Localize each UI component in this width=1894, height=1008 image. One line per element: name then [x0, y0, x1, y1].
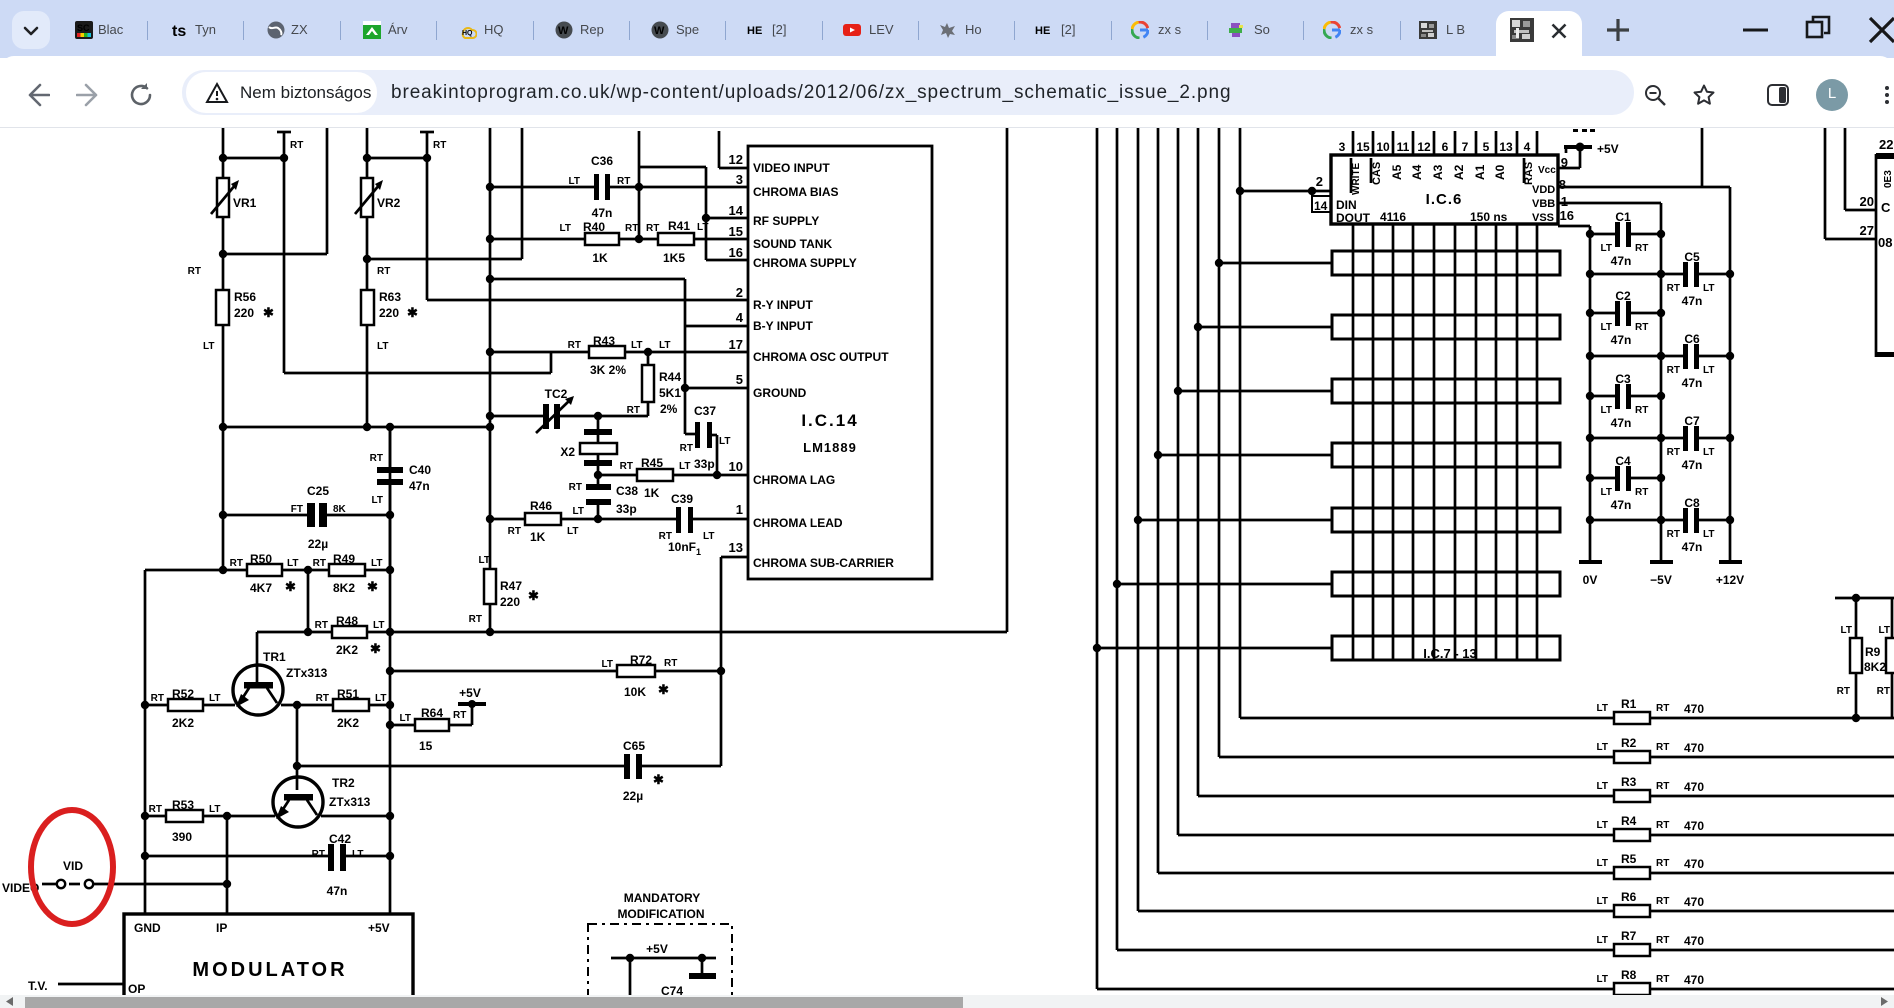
svg-text:RF SUPPLY: RF SUPPLY [753, 214, 819, 228]
wire: C36/R40 junction [638, 187, 641, 239]
svg-text:R5: R5 [1621, 852, 1637, 866]
svg-text:8: 8 [1559, 177, 1566, 192]
tab 5 favicon HQ [459, 21, 477, 39]
svg-text:LT: LT [1879, 625, 1890, 636]
svg-text:RT: RT [508, 526, 521, 537]
wire: modulator GND riser [141, 570, 149, 914]
svg-text:RT: RT [1656, 781, 1669, 792]
resistor R4 [1597, 814, 1894, 841]
tab 3 favicon globe [267, 21, 285, 39]
wire: row 7 tap [1093, 644, 1332, 652]
svg-text:LT: LT [209, 804, 220, 815]
svg-text:R47: R47 [500, 579, 522, 593]
svg-text:470: 470 [1684, 895, 1704, 909]
wire: +12V rail [1716, 187, 1744, 587]
power +5V terminal (IC6 pin 9) [1558, 129, 1619, 170]
wire: TR2 collector to +5V [321, 815, 390, 818]
wire: R49 base link [304, 570, 312, 636]
star icon [1692, 83, 1716, 107]
wire: data bus line 5 (to R5) [1158, 128, 1614, 873]
svg-text:1K: 1K [530, 530, 546, 544]
svg-text:C2: C2 [1615, 289, 1631, 303]
resistor R3 [1597, 775, 1894, 802]
content top hairline [0, 127, 1894, 128]
wire: video out riser [1006, 128, 1009, 632]
svg-text:C42: C42 [329, 832, 351, 846]
3-dot menu [1875, 83, 1894, 107]
svg-text:C36: C36 [591, 154, 613, 168]
resistor R7 [1597, 929, 1894, 956]
wire: VR2 branch vertical [366, 128, 369, 427]
svg-text:RT: RT [1837, 686, 1850, 697]
wire: data bus line 4 (to R4) [1178, 128, 1614, 835]
svg-text:LT: LT [1597, 820, 1608, 831]
svg-text:10: 10 [1376, 140, 1390, 154]
svg-text:R41: R41 [668, 219, 690, 233]
svg-text:14: 14 [1314, 199, 1328, 213]
svg-text:5: 5 [736, 372, 743, 387]
svg-text:RT: RT [568, 340, 581, 351]
svg-text:13: 13 [1499, 140, 1513, 154]
svg-text:47n: 47n [1682, 376, 1703, 390]
svg-text:R3: R3 [1621, 775, 1637, 789]
transistor TR2 [273, 776, 371, 827]
svg-text:✱: ✱ [658, 682, 669, 697]
svg-text:A1: A1 [1473, 164, 1487, 180]
window minimize [1742, 16, 1770, 44]
wire: ground (pin 5) [681, 384, 748, 392]
svg-text:C40: C40 [409, 463, 431, 477]
capacitor C39 [659, 492, 748, 557]
svg-text:RT: RT [453, 710, 466, 721]
capacitor C25 [219, 484, 394, 551]
wire: row 2 tap [1194, 323, 1332, 331]
wire: VR1 wiper [219, 128, 327, 258]
wire: VR1 branch vertical [222, 128, 225, 570]
svg-text:22: 22 [1879, 137, 1893, 152]
svg-text:33p: 33p [694, 457, 715, 471]
IC row I.C.9 [1332, 379, 1560, 403]
svg-text:LT: LT [1601, 243, 1612, 254]
svg-text:1: 1 [1561, 194, 1568, 209]
svg-text:LT: LT [1597, 935, 1608, 946]
svg-text:C38: C38 [616, 484, 638, 498]
svg-text:RT: RT [1635, 487, 1648, 498]
svg-text:+12V: +12V [1716, 573, 1744, 587]
capacitor C2 [1590, 289, 1661, 347]
svg-text:LT: LT [287, 558, 298, 569]
op-amp/IC U14 (I.C.14 LM1889) [729, 146, 932, 579]
svg-text:220: 220 [379, 306, 399, 320]
side panel icon [1766, 83, 1790, 107]
svg-text:470: 470 [1684, 780, 1704, 794]
svg-text:RT: RT [680, 443, 693, 454]
toolbar [0, 56, 1894, 127]
svg-text:✱: ✱ [370, 641, 381, 656]
svg-text:LT: LT [372, 495, 383, 506]
wire: row 4 tap [1154, 451, 1332, 459]
svg-text:SC: SC [77, 23, 90, 33]
resistor R53 [141, 798, 275, 844]
svg-text:CHROMA SUB-CARRIER: CHROMA SUB-CARRIER [753, 556, 894, 570]
potentiometer VR2 [355, 178, 401, 217]
wire: VR2 top link [363, 154, 431, 162]
svg-text:470: 470 [1684, 857, 1704, 871]
svg-text:47n: 47n [1611, 333, 1632, 347]
svg-text:CHROMA LEAD: CHROMA LEAD [753, 516, 843, 530]
svg-text:3: 3 [1339, 140, 1346, 154]
svg-text:HE: HE [747, 25, 762, 37]
svg-text:VDD: VDD [1532, 184, 1555, 196]
resistor R44 [627, 352, 682, 416]
svg-text:470: 470 [1684, 973, 1704, 987]
svg-text:390: 390 [172, 830, 192, 844]
svg-text:TR1: TR1 [263, 650, 286, 664]
tab 4 favicon green [363, 21, 381, 39]
svg-text:6: 6 [1442, 140, 1449, 154]
potentiometer VR1 [211, 178, 257, 217]
capacitor C40 [370, 427, 432, 570]
svg-text:RT: RT [1667, 365, 1680, 376]
svg-text:20: 20 [1860, 194, 1874, 209]
capacitor C6 [1590, 332, 1730, 390]
svg-text:LT: LT [1703, 529, 1714, 540]
wire: chroma bias bus vertical [489, 128, 492, 569]
svg-text:RT: RT [1656, 858, 1669, 869]
resistor R51 [281, 687, 394, 730]
tab 16 (active) favicon [1510, 18, 1534, 42]
svg-text:LT: LT [560, 223, 571, 234]
svg-text:1K: 1K [644, 486, 660, 500]
wire: WRITE/DIN pin 2 and 14 [1236, 174, 1331, 213]
svg-text:CHROMA BIAS: CHROMA BIAS [753, 185, 839, 199]
svg-text:LT: LT [352, 849, 363, 860]
svg-text:LM1889: LM1889 [803, 440, 857, 455]
resistor R56 [188, 266, 274, 352]
tab 14 favicon G [1323, 21, 1341, 39]
svg-text:RT: RT [1635, 322, 1648, 333]
svg-text:150 ns: 150 ns [1470, 210, 1508, 224]
svg-text:LT: LT [1597, 742, 1608, 753]
svg-text:RT: RT [1656, 742, 1669, 753]
svg-text:CAS: CAS [1371, 162, 1383, 185]
svg-text:1K5: 1K5 [663, 251, 685, 265]
svg-text:LT: LT [1601, 487, 1612, 498]
capacitor C36 [486, 154, 748, 220]
wire: data bus line 6 (to R6) [1138, 128, 1614, 911]
svg-text:✱: ✱ [367, 579, 378, 594]
svg-text:W: W [558, 25, 569, 37]
memory IC6 4116 [1331, 140, 1558, 225]
resistor R8 [1597, 968, 1894, 995]
svg-text:5K1: 5K1 [659, 386, 681, 400]
wire: ROM pin 20 [1845, 128, 1876, 210]
svg-text:47n: 47n [1611, 416, 1632, 430]
svg-text:C25: C25 [307, 484, 329, 498]
wire: row 6 tap [1113, 580, 1332, 588]
svg-text:22µ: 22µ [623, 789, 643, 803]
wire: pin12 feed [639, 131, 748, 187]
svg-text:4K7: 4K7 [250, 581, 272, 595]
svg-text:GND: GND [134, 921, 161, 935]
svg-text:220: 220 [234, 306, 254, 320]
svg-text:8K: 8K [333, 504, 347, 515]
svg-text:VR2: VR2 [377, 196, 401, 210]
svg-text:C3: C3 [1615, 372, 1631, 386]
wire: VR2 wiper [363, 128, 522, 263]
resistor R46 [486, 499, 676, 544]
svg-text:✱: ✱ [407, 305, 418, 320]
svg-text:22µ: 22µ [308, 537, 328, 551]
svg-text:R56: R56 [234, 290, 256, 304]
svg-text:C8: C8 [1684, 496, 1700, 510]
wire: ROM pin 27 [1825, 128, 1876, 239]
wire: data bus line 7 (to R7) [1117, 128, 1614, 950]
svg-text:47n: 47n [1611, 498, 1632, 512]
svg-text:CHROMA SUPPLY: CHROMA SUPPLY [753, 256, 857, 270]
tab 11 favicon HE [1035, 21, 1053, 39]
svg-text:+5V: +5V [1597, 142, 1619, 156]
svg-text:R63: R63 [379, 290, 401, 304]
svg-text:LT: LT [203, 341, 214, 352]
capacitor C37 [680, 404, 731, 475]
svg-text:1: 1 [696, 547, 701, 557]
svg-text:8K2: 8K2 [333, 581, 355, 595]
svg-text:LT: LT [1597, 896, 1608, 907]
svg-text:ZTx313: ZTx313 [286, 666, 328, 680]
svg-text:10nF: 10nF [668, 540, 696, 554]
svg-text:T.V.: T.V. [28, 979, 48, 993]
svg-text:C: C [1881, 200, 1891, 215]
wire: row 5 tap [1134, 516, 1332, 524]
svg-text:5: 5 [1483, 140, 1490, 154]
svg-text:47n: 47n [327, 884, 348, 898]
svg-text:2K2: 2K2 [336, 643, 358, 657]
window restore [1804, 14, 1832, 42]
svg-text:RT: RT [370, 453, 383, 464]
svg-text:15: 15 [1356, 140, 1370, 154]
svg-text:13: 13 [729, 540, 743, 555]
svg-text:47n: 47n [409, 479, 430, 493]
warning triangle icon [205, 81, 229, 105]
svg-text:47n: 47n [1682, 540, 1703, 554]
svg-text:RT: RT [569, 482, 582, 493]
svg-text:2K2: 2K2 [337, 716, 359, 730]
svg-text:VSS: VSS [1532, 212, 1554, 224]
svg-text:LT: LT [400, 713, 411, 724]
svg-text:33p: 33p [616, 502, 637, 516]
svg-text:LT: LT [697, 222, 708, 233]
svg-text:C37: C37 [694, 404, 716, 418]
svg-text:✱: ✱ [285, 579, 296, 594]
svg-text:RT: RT [627, 405, 640, 416]
svg-text:LT: LT [631, 340, 642, 351]
svg-text:12: 12 [1417, 140, 1431, 154]
tab 10 favicon bat [939, 21, 957, 39]
svg-text:3: 3 [736, 172, 743, 187]
svg-text:R8: R8 [1621, 968, 1637, 982]
svg-text:VIDEO INPUT: VIDEO INPUT [753, 161, 830, 175]
svg-text:LT: LT [1703, 447, 1714, 458]
svg-text:RT: RT [1656, 935, 1669, 946]
svg-text:LT: LT [371, 558, 382, 569]
svg-text:VR1: VR1 [233, 196, 257, 210]
wire: row 3 tap [1174, 387, 1332, 395]
svg-text:I.C.6: I.C.6 [1426, 191, 1463, 208]
svg-text:16: 16 [1560, 208, 1574, 223]
svg-text:WRITE: WRITE [1351, 162, 1362, 195]
svg-text:11: 11 [1397, 140, 1410, 154]
tab 15 favicon schematic thumb [1419, 21, 1437, 39]
wire: B-Y input (pin 4) [486, 275, 748, 434]
svg-text:LT: LT [1597, 974, 1608, 985]
svg-text:RT: RT [617, 176, 630, 187]
power +5V terminal [458, 686, 486, 708]
IC row I.C.12 [1332, 572, 1560, 596]
wire: VR1 arm to oscillator [284, 352, 551, 373]
resistor R6 [1597, 890, 1894, 917]
svg-text:R46: R46 [530, 499, 552, 513]
svg-text:RT: RT [230, 558, 243, 569]
svg-text:15: 15 [729, 224, 743, 239]
reload [128, 82, 154, 108]
svg-text:LT: LT [1597, 858, 1608, 869]
wire: 0V rail [1579, 226, 1602, 587]
svg-text:+5V: +5V [368, 921, 390, 935]
tab 7 favicon W [651, 21, 669, 39]
svg-text:47n: 47n [1682, 294, 1703, 308]
svg-text:X2: X2 [560, 445, 575, 459]
svg-text:C7: C7 [1684, 414, 1700, 428]
active tab close X [1551, 23, 1567, 39]
resistor R64 [386, 704, 472, 753]
resistor R52 [141, 687, 235, 730]
svg-text:R9: R9 [1865, 645, 1881, 659]
svg-text:CHROMA OSC OUTPUT: CHROMA OSC OUTPUT [753, 350, 889, 364]
wire: data bus line 1 (to R1) [1240, 128, 1614, 718]
capacitor C3 [1590, 372, 1661, 430]
avatar [1816, 79, 1848, 111]
svg-text:2: 2 [736, 285, 743, 300]
IC row I.C.7 [1332, 251, 1560, 275]
svg-text:C74: C74 [661, 984, 683, 995]
tab 8 favicon HE [747, 21, 765, 39]
svg-text:TR2: TR2 [332, 776, 355, 790]
svg-text:R6: R6 [1621, 890, 1637, 904]
svg-text:RT: RT [315, 620, 328, 631]
omnibox [182, 70, 1634, 115]
svg-text:LT: LT [1841, 625, 1852, 636]
svg-text:RT: RT [469, 614, 482, 625]
svg-text:TC2: TC2 [545, 387, 568, 401]
svg-text:C65: C65 [623, 739, 645, 753]
svg-text:VID: VID [63, 859, 83, 873]
resistor R50 [145, 552, 329, 595]
svg-text:7: 7 [1462, 140, 1469, 154]
modulator box [124, 914, 413, 998]
svg-text:2%: 2% [660, 402, 678, 416]
wire: VSS 0V line (pin 16) [1558, 208, 1590, 226]
svg-text:2: 2 [1316, 174, 1323, 189]
svg-text:R7: R7 [1621, 929, 1637, 943]
IC row I.C.10 [1332, 443, 1560, 467]
resistor R49 [313, 552, 395, 595]
wire: VR1 top link [219, 154, 288, 162]
svg-text:47n: 47n [1611, 254, 1632, 268]
svg-text:8K2: 8K2 [1864, 660, 1886, 674]
zoom out icon [1643, 83, 1667, 107]
svg-text:2K2: 2K2 [172, 716, 194, 730]
capacitor C7 [1590, 414, 1730, 472]
wire: R-Y input (pin 2) [427, 299, 748, 302]
svg-text:470: 470 [1684, 819, 1704, 833]
svg-text:27: 27 [1860, 223, 1874, 238]
resistor R10 (edge, partial) [1877, 598, 1894, 718]
svg-text:LT: LT [1703, 283, 1714, 294]
svg-text:RT: RT [1877, 686, 1890, 697]
svg-text:470: 470 [1684, 741, 1704, 755]
wire: VBB -5V line (pin 1) [1558, 194, 1661, 209]
svg-text:✱: ✱ [528, 588, 539, 603]
capacitor C1 [1590, 210, 1661, 268]
svg-text:GROUND: GROUND [753, 386, 807, 400]
svg-text:220: 220 [500, 595, 520, 609]
svg-text:VBB: VBB [1532, 198, 1555, 210]
svg-text:4: 4 [1524, 140, 1531, 154]
resistor R72 [390, 653, 725, 699]
svg-text:0E3: 0E3 [1883, 170, 1894, 188]
capacitor C4 [1590, 454, 1661, 512]
svg-text:IP: IP [216, 921, 227, 935]
back arrow [24, 82, 50, 108]
svg-text:LT: LT [377, 341, 388, 352]
svg-text:MANDATORY: MANDATORY [624, 891, 700, 905]
capacitor C42 [145, 832, 390, 898]
svg-text:LT: LT [679, 461, 690, 472]
resistor R2 [1597, 736, 1894, 763]
svg-text:RT: RT [664, 658, 677, 669]
svg-text:RT: RT [1667, 283, 1680, 294]
tab 12 favicon G [1131, 21, 1149, 39]
wire: address bus verticals through RAM rows [1353, 224, 1537, 660]
wire: IC6 top pin stubs (pins 3,15,10,11,12,6,7,5,13,4) [1353, 131, 1537, 155]
svg-text:C1: C1 [1615, 210, 1631, 224]
svg-text:LT: LT [602, 659, 613, 670]
svg-text:RT: RT [1656, 703, 1669, 714]
svg-text:RT: RT [149, 804, 162, 815]
wire: VDD +12V line (pin 8) [1558, 128, 1730, 192]
svg-text:12: 12 [729, 152, 743, 167]
svg-text:RT: RT [1635, 405, 1648, 416]
svg-text:−5V: −5V [1650, 573, 1672, 587]
resistor R63 [361, 266, 418, 352]
svg-text:17: 17 [729, 337, 743, 352]
svg-text:0V: 0V [1583, 573, 1598, 587]
svg-text:SOUND TANK: SOUND TANK [753, 237, 832, 251]
wire: chroma sub-carrier (pin 13) [721, 557, 748, 766]
svg-text:LT: LT [209, 693, 220, 704]
tab 9 favicon youtube [843, 21, 861, 39]
svg-text:RT: RT [433, 140, 446, 151]
svg-text:Vcc: Vcc [1538, 165, 1556, 176]
svg-text:LT: LT [1601, 405, 1612, 416]
scrollbar left arrow [2, 995, 18, 1008]
svg-text:HQ: HQ [462, 30, 473, 37]
svg-text:3K 2%: 3K 2% [590, 363, 626, 377]
svg-text:ts: ts [172, 23, 186, 39]
capacitor C65 [293, 739, 721, 803]
resistor R43 [486, 334, 748, 377]
